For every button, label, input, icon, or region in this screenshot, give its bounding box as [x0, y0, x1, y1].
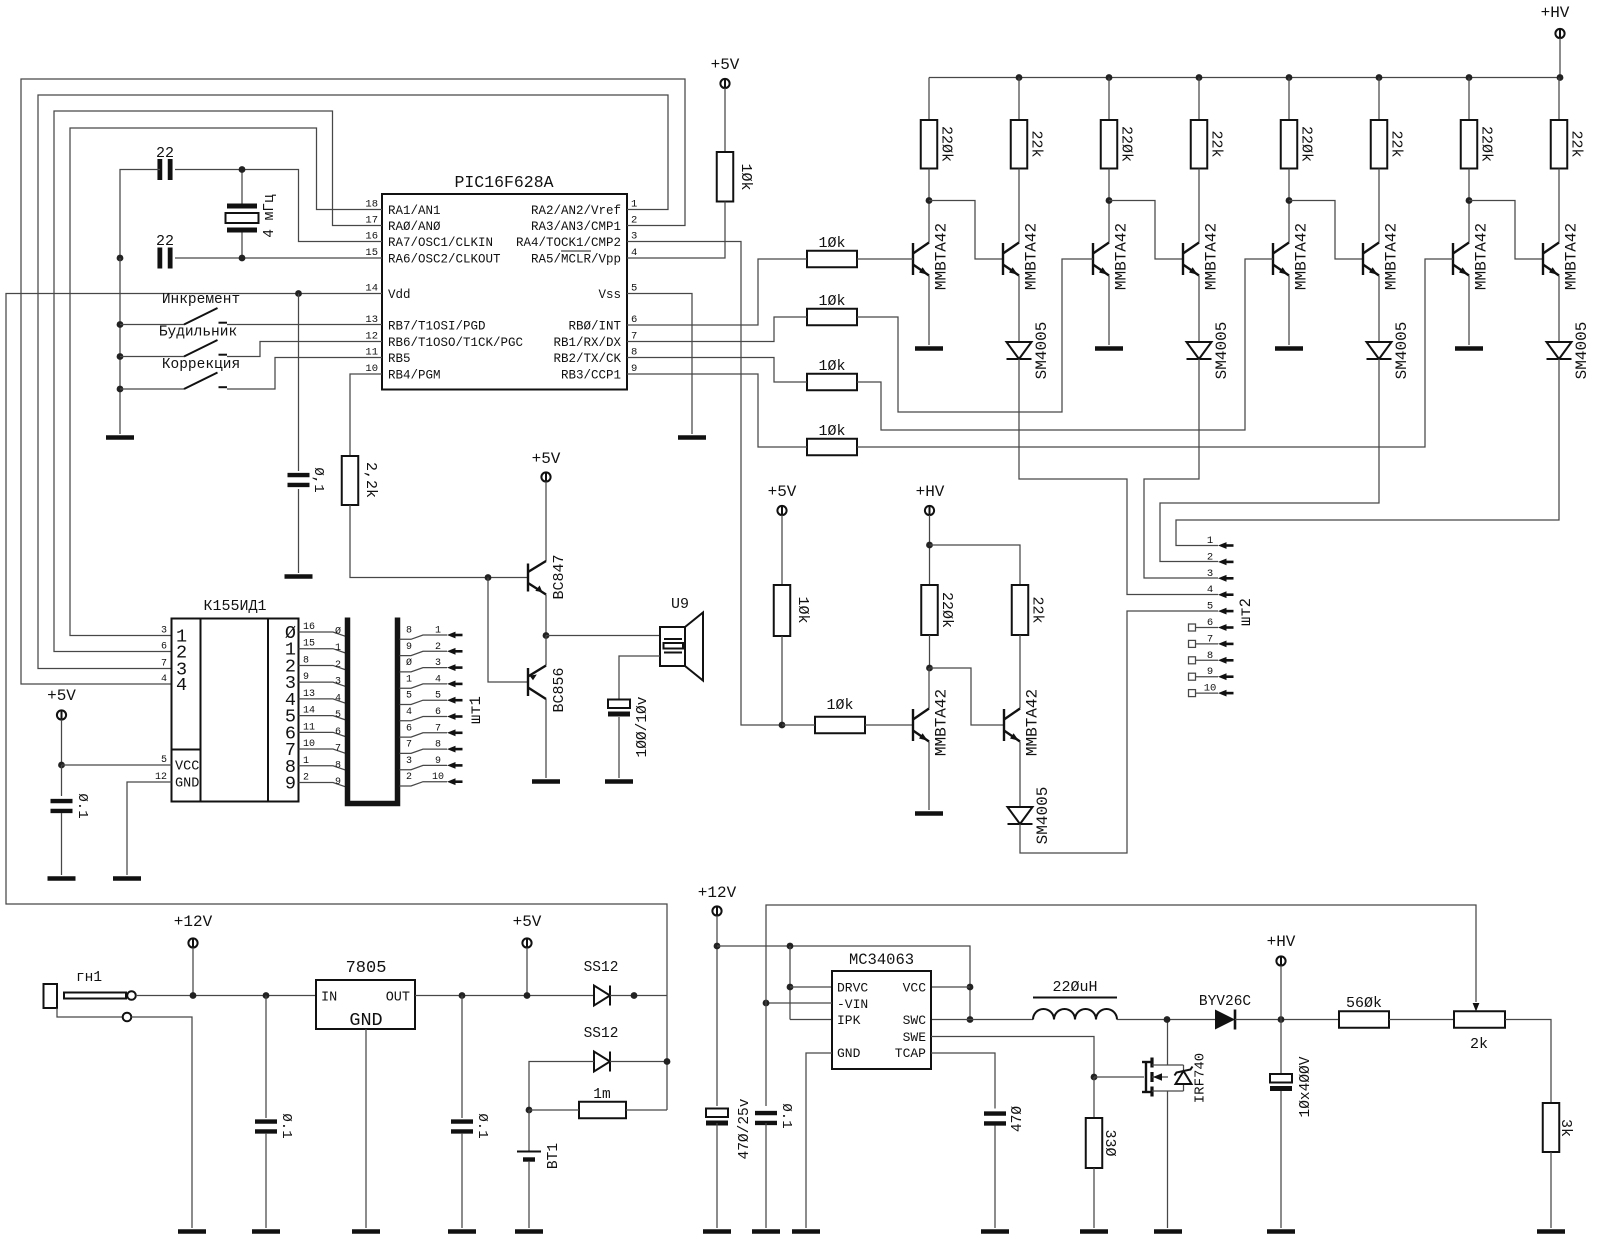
transistor MMBTA42 Q1 pair2 [1093, 243, 1109, 276]
ground mc34063 [792, 1229, 820, 1234]
ground mosfet source [1154, 1229, 1182, 1234]
svg-text:BT1: BT1 [546, 1143, 562, 1169]
capacitor 470 tcap [984, 1111, 1006, 1125]
wire 1m to rail [626, 1109, 667, 1111]
svg-text:11: 11 [365, 347, 378, 359]
svg-text:4: 4 [161, 674, 167, 685]
svg-text:2: 2 [631, 215, 637, 227]
svg-text:18: 18 [365, 199, 378, 211]
svg-text:9: 9 [303, 672, 309, 683]
svg-text:шт2: шт2 [1237, 598, 1255, 626]
svg-text:7805: 7805 [346, 959, 387, 978]
resistor 22k pair3 [1371, 120, 1388, 169]
IC U1 PIC16F628A body [382, 194, 627, 390]
svg-text:RB7/T1OSI/PGD: RB7/T1OSI/PGD [388, 320, 486, 334]
node cap1 tap [263, 992, 270, 999]
wire SB2 to pin12 [227, 342, 382, 357]
wire bus line B pin1-RA2 to K155 pin3 [38, 95, 668, 669]
wire bt to 1m [529, 1109, 579, 1111]
svg-text:SM4005: SM4005 [1034, 787, 1052, 845]
svg-text:9: 9 [285, 773, 296, 794]
svg-text:-VIN: -VIN [837, 997, 868, 1012]
svg-text:RAØ/ANØ: RAØ/ANØ [388, 220, 441, 234]
svg-text:RB3/CCP1: RB3/CCP1 [561, 369, 621, 383]
svg-text:9: 9 [406, 642, 412, 653]
svg-text:22Øk: 22Øk [1478, 126, 1495, 162]
svg-text:4: 4 [435, 674, 441, 685]
svg-text:1Øk: 1Øk [737, 163, 754, 190]
ground K155 cap [48, 876, 76, 881]
resistor 22k pair1 [1011, 120, 1028, 169]
svg-text:3: 3 [161, 626, 167, 637]
wire +12V terminal [192, 948, 194, 996]
svg-text:9: 9 [335, 777, 341, 788]
ground Q1 pair3 [1275, 346, 1303, 351]
resistor 10k MCLR [717, 152, 734, 202]
wire speaker bottom to cap [619, 656, 660, 700]
svg-text:15: 15 [303, 639, 315, 650]
ground cap fb [752, 1229, 780, 1234]
svg-text:22k: 22k [1029, 596, 1046, 623]
resistor 220k pair3 [1281, 120, 1298, 169]
capacitor 0.1 out [461, 996, 463, 1119]
transistor VT IRF740 mosfet [1142, 1062, 1151, 1092]
svg-text:5: 5 [435, 691, 441, 702]
wire SB1 to pin13 [227, 324, 382, 326]
svg-text:4: 4 [176, 675, 187, 696]
svg-text:RA2/AN2/Vref: RA2/AN2/Vref [531, 204, 621, 218]
wire rail to R220k col3 [1288, 78, 1290, 121]
svg-text:+5V: +5V [768, 483, 797, 501]
wire cap to ground [298, 489, 300, 573]
wire R220k to collector pair1 [928, 169, 930, 243]
wire diode5 to sht2 pin5 [1020, 611, 1218, 853]
IC U3 MC34063 [832, 971, 931, 1069]
wire BC856 collector to ground [545, 699, 547, 778]
svg-text:3: 3 [631, 231, 637, 243]
resistor 10k row4 [807, 439, 857, 456]
svg-text:2: 2 [435, 642, 441, 653]
wire pin10 RB4 to R2.2k [350, 374, 382, 456]
svg-text:2: 2 [1207, 551, 1213, 563]
node cap2 tap [459, 992, 466, 999]
svg-text:7: 7 [161, 659, 167, 670]
node button3 [117, 386, 124, 393]
svg-text:SM4005: SM4005 [1393, 322, 1411, 380]
wire R2.2k to BC847 base [350, 505, 528, 578]
wire rail to R22k col1 [1018, 78, 1020, 121]
svg-text:22k: 22k [1208, 130, 1225, 157]
svg-text:47Ø/25v: 47Ø/25v [737, 1098, 753, 1159]
svg-text:22: 22 [156, 145, 174, 162]
svg-text:8: 8 [631, 347, 637, 359]
node collector pair4 [1466, 197, 1473, 204]
resistor 220k pair2 [1101, 120, 1118, 169]
svg-text:RB6/T1OSO/T1CK/PGC: RB6/T1OSO/T1CK/PGC [388, 336, 523, 350]
wire SS12 backup anode [529, 1062, 594, 1111]
node button1 [117, 321, 124, 328]
wire SB3 to pin11 [227, 358, 382, 390]
svg-text:Ø.1: Ø.1 [778, 1103, 794, 1128]
wire inductor to diode [1117, 1019, 1215, 1021]
ground jack [178, 1229, 206, 1234]
svg-text:22k: 22k [1388, 130, 1405, 157]
wire vcc feed [717, 946, 970, 1020]
wire collector to Q2 base pair4 [1469, 201, 1543, 260]
svg-text:RBØ/INT: RBØ/INT [568, 320, 621, 334]
svg-text:1: 1 [406, 674, 412, 685]
wire gate to 330 [1093, 1077, 1095, 1118]
wire R220k to collector pair3 [1288, 169, 1290, 243]
wire pot out [1505, 1020, 1551, 1104]
transistor Q BC856 pnp [528, 666, 546, 700]
wire TCAP pin [931, 1053, 995, 1109]
capacitor 22 top [157, 159, 172, 180]
node backup rail [664, 1058, 671, 1065]
ground 7805 [352, 1229, 380, 1234]
svg-text:15: 15 [365, 247, 378, 259]
wire jack sleeve to ground [131, 1017, 192, 1228]
wires U2 outputs to sht1 bus [299, 632, 346, 636]
node collector pair3 [1286, 197, 1293, 204]
svg-text:3k: 3k [1557, 1119, 1574, 1137]
capacitor 0.1 fb [755, 1111, 777, 1125]
svg-text:2,2k: 2,2k [362, 462, 379, 498]
node +5V tap [524, 992, 531, 999]
node osc left junction [117, 255, 124, 262]
svg-text:SS12: SS12 [584, 1026, 619, 1042]
resistor 22k pair4 [1551, 120, 1568, 169]
svg-text:RB5: RB5 [388, 352, 411, 366]
svg-text:MMBTA42: MMBTA42 [1203, 223, 1221, 290]
svg-text:4: 4 [335, 693, 341, 704]
wire Q1 emitter pair3 [1288, 276, 1290, 346]
node HV split [926, 542, 933, 549]
node HV out [1278, 1016, 1285, 1023]
potentiometer 2k [1454, 1011, 1505, 1028]
svg-text:10: 10 [303, 739, 315, 750]
sht1 right wires and arrows [400, 635, 448, 639]
wire Vss pin5 [627, 294, 692, 435]
svg-text:22Øk: 22Øk [1118, 126, 1135, 162]
wire R row1 to Q1 base [857, 258, 913, 260]
ground battery [515, 1229, 543, 1234]
node button2 [117, 353, 124, 360]
svg-text:4: 4 [406, 707, 412, 718]
svg-text:MMBTA42: MMBTA42 [933, 223, 951, 290]
svg-text:5: 5 [406, 691, 412, 702]
svg-text:3: 3 [1207, 568, 1213, 580]
svg-text:2: 2 [335, 660, 341, 671]
wire SWC pin to inductor [931, 1019, 1033, 1021]
svg-text:22k: 22k [1568, 130, 1585, 157]
node collector mid [926, 665, 933, 672]
wire +12V to cap [716, 916, 718, 1107]
svg-text:1: 1 [435, 626, 441, 637]
svg-text:2: 2 [303, 772, 309, 783]
resistor 3k [1543, 1103, 1560, 1152]
wire HV to cap [1280, 1020, 1282, 1075]
ground Q1 pair4 [1455, 346, 1483, 351]
svg-text:MMBTA42: MMBTA42 [1563, 223, 1581, 290]
svg-text:OUT: OUT [386, 991, 410, 1006]
wire VCC pin [931, 986, 970, 988]
capacitor 0.1 in [265, 996, 267, 1119]
svg-text:6: 6 [161, 642, 167, 653]
svg-text:14: 14 [303, 706, 315, 717]
svg-text:1: 1 [631, 199, 637, 211]
wire R row3 to pair3 base [857, 259, 1273, 430]
svg-text:4: 4 [631, 247, 637, 259]
wire R row4 to pair4 base [857, 259, 1453, 447]
wire cap drop [61, 765, 63, 796]
wire to BC856 base [488, 578, 528, 683]
svg-text:56Øk: 56Øk [1346, 995, 1382, 1012]
transistor MMBTA42 Q2 pair2 [1183, 243, 1199, 276]
svg-text:7: 7 [631, 331, 637, 343]
wire +12V rail to 7805 [136, 995, 316, 997]
wire diode2 to sht2 pin3 [1144, 359, 1218, 578]
ground hv cap [1267, 1229, 1295, 1234]
svg-text:+5V: +5V [711, 56, 740, 74]
resistor 22k mid [1012, 585, 1029, 635]
wire Q2 emitter mid [1019, 742, 1021, 808]
svg-text:SWC: SWC [903, 1013, 927, 1028]
wire +HV rail [929, 38, 1560, 78]
resistor 560k [1339, 1011, 1389, 1028]
node vcc pin [967, 984, 974, 991]
svg-text:2: 2 [406, 772, 412, 783]
svg-text:Коррекция: Коррекция [162, 357, 240, 373]
wire collector to Q2 base pair2 [1109, 201, 1183, 260]
wire IPK pin [790, 1019, 832, 1021]
wire Q2 emitter pair4 [1558, 276, 1560, 343]
svg-text:Ø.1: Ø.1 [74, 793, 90, 818]
wire pin6 to R row1 [627, 259, 807, 325]
svg-text:6: 6 [435, 707, 441, 718]
wire Q1 emitter pair2 [1108, 276, 1110, 346]
wire diode4 to sht2 pin1 [1176, 359, 1559, 546]
svg-text:Ø,1: Ø,1 [310, 467, 326, 492]
wire Q1 emitter pair1 [928, 276, 930, 346]
svg-text:1m: 1m [593, 1087, 610, 1103]
svg-text:7: 7 [406, 740, 412, 751]
wire feedback line to pot [766, 905, 1476, 1106]
node swc [967, 1016, 974, 1023]
wire diode1 to sht2 pin4 [1019, 359, 1218, 595]
resistor 22k pair2 [1191, 120, 1208, 169]
svg-text:IPK: IPK [837, 1013, 861, 1028]
wire SS12 cathode [610, 995, 667, 997]
diode SM4005 pair4 [1547, 342, 1572, 359]
resistor 220k mid [921, 585, 938, 635]
svg-text:8: 8 [303, 655, 309, 666]
wire cap to ground [618, 717, 620, 778]
wire R to pin4 [627, 202, 725, 259]
ground Vdd cap [285, 574, 313, 579]
wire OSC1 pin16 net [175, 170, 382, 242]
resistor 1m [579, 1102, 626, 1119]
ground cap470 [703, 1229, 731, 1234]
svg-text:GND: GND [175, 777, 199, 792]
svg-text:1: 1 [303, 756, 309, 767]
svg-text:22Øk: 22Øk [938, 126, 955, 162]
svg-text:22ØuH: 22ØuH [1052, 979, 1097, 996]
svg-text:3: 3 [335, 677, 341, 688]
svg-text:VCC: VCC [903, 981, 927, 996]
svg-text:33Ø: 33Ø [1101, 1129, 1118, 1156]
wire OSC2 pin15 net [175, 257, 382, 259]
wire 560k to pot [1389, 1019, 1454, 1021]
wire Q2 emitter pair2 [1198, 276, 1200, 343]
svg-text:4 мГц: 4 мГц [262, 194, 278, 238]
wire rail to R220k col1 [928, 78, 930, 121]
diode SM4005 pair3 [1367, 342, 1392, 359]
svg-text:+HV: +HV [916, 483, 945, 501]
wire Vdd cap [298, 294, 300, 472]
resistor 10k row2 [807, 309, 857, 326]
svg-text:Ø: Ø [406, 657, 412, 669]
transistor MMBTA42 Q2 pair4 [1543, 243, 1559, 276]
svg-text:3: 3 [435, 658, 441, 669]
resistor 2,2k [342, 456, 359, 505]
svg-text:22Øk: 22Øk [1298, 126, 1315, 162]
transistor MMBTA42 Q1 pair3 [1273, 243, 1289, 276]
wire 330 to ground [1093, 1168, 1095, 1228]
svg-text:6: 6 [631, 314, 637, 326]
resistor 10k mid pullup [774, 585, 791, 636]
ground 330 [1080, 1229, 1108, 1234]
capacitor 0.1 K155 [51, 799, 73, 813]
svg-text:RA5/MCLR/Vpp: RA5/MCLR/Vpp [531, 253, 621, 267]
wire diode to HV node [1235, 1019, 1339, 1021]
wire collector to Q2 base pair1 [929, 201, 1003, 260]
wire +5V to R 10k [724, 88, 726, 152]
svg-text:SS12: SS12 [584, 960, 619, 976]
wire 22k to Q2 collector [1019, 635, 1021, 709]
svg-text:RB1/RX/DX: RB1/RX/DX [553, 336, 621, 350]
node drvc riser [787, 943, 794, 950]
capacitor 22 bottom [157, 248, 172, 269]
wire +5V terminal [526, 948, 528, 996]
transistor MMBTA42 Q1 pair4 [1453, 243, 1469, 276]
IC U2 K155ID1 body [172, 619, 299, 802]
svg-text:16: 16 [303, 622, 315, 633]
svg-text:22k: 22k [1028, 130, 1045, 157]
svg-text:DRVC: DRVC [837, 981, 868, 996]
svg-text:22Øk: 22Øk [938, 592, 955, 628]
svg-text:GND: GND [837, 1046, 861, 1061]
transistor MMBTA42 Q2 pair1 [1003, 243, 1019, 276]
diode SM4005 mid [1008, 807, 1033, 824]
svg-text:гн1: гн1 [76, 970, 102, 986]
wire rail to R220k col2 [1108, 78, 1110, 121]
wire 7805 gnd [365, 1029, 367, 1228]
svg-text:22: 22 [156, 233, 174, 250]
ground Vss [678, 435, 706, 440]
wire collector to Q2 base pair3 [1289, 201, 1363, 260]
node drvc [787, 984, 794, 991]
wire battery to ground [528, 1161, 530, 1228]
diode SM4005 pair1 [1007, 342, 1032, 359]
ground Q1 mid [915, 811, 943, 816]
wire R22k to Q2 collector pair1 [1018, 169, 1020, 243]
svg-text:+5V: +5V [513, 913, 542, 931]
resistor 10k row1 [807, 251, 857, 268]
ground 3k [1537, 1229, 1565, 1234]
svg-text:MMBTA42: MMBTA42 [1293, 223, 1311, 290]
svg-text:1Øx4ØØV: 1Øx4ØØV [1298, 1056, 1314, 1117]
svg-text:Ø.1: Ø.1 [474, 1113, 490, 1138]
node gate [1091, 1074, 1098, 1081]
wire HV to 22k [930, 545, 1021, 585]
ground Q1 pair1 [915, 346, 943, 351]
svg-text:1Øk: 1Øk [794, 596, 811, 623]
svg-text:10: 10 [432, 772, 444, 783]
svg-text:1Øk: 1Øk [818, 423, 845, 440]
wire Q2 emitter pair3 [1378, 276, 1380, 343]
connector sht1 bus bar [348, 618, 398, 804]
wire SWE to gate [931, 1037, 1094, 1078]
wire DRVC pin [790, 986, 832, 988]
wire 220k to collector node [929, 635, 931, 668]
wire bus line D pin18-RA1 to K155 pin1 [70, 128, 382, 636]
wire R220k to collector pair2 [1108, 169, 1110, 243]
svg-text:16: 16 [365, 231, 378, 243]
svg-text:+5V: +5V [47, 687, 76, 705]
svg-text:PIC16F628A: PIC16F628A [454, 173, 553, 192]
wire rail to R220k col4 [1468, 78, 1470, 121]
svg-text:1Øk: 1Øk [818, 293, 845, 310]
wire +5V to 10k [781, 515, 783, 585]
svg-text:GND: GND [349, 1010, 382, 1031]
svg-text:Ø.1: Ø.1 [278, 1113, 294, 1138]
svg-text:BC856: BC856 [551, 667, 568, 712]
svg-text:Ø: Ø [335, 626, 341, 638]
svg-text:4: 4 [1207, 584, 1213, 596]
svg-text:SWE: SWE [903, 1030, 927, 1045]
wire +HV terminal [1280, 966, 1282, 1020]
wire pin9 to R row4 [627, 374, 807, 447]
resistor 330 [1086, 1118, 1103, 1168]
capacitor 0,1 Vdd [288, 473, 310, 487]
transistor MMBTA42 Q2 mid [1004, 709, 1020, 742]
node crystal bottom [239, 255, 246, 262]
svg-text:RA4/TOCK1/CMP2: RA4/TOCK1/CMP2 [516, 236, 621, 250]
wire 3k to ground [1550, 1152, 1552, 1228]
svg-text:RB4/PGM: RB4/PGM [388, 369, 441, 383]
node collector pair1 [926, 197, 933, 204]
svg-text:RA6/OSC2/CLKOUT: RA6/OSC2/CLKOUT [388, 253, 501, 267]
svg-text:9: 9 [435, 756, 441, 767]
resistor 10k row3 [807, 374, 857, 391]
svg-text:IN: IN [321, 991, 337, 1006]
svg-text:MMBTA42: MMBTA42 [1113, 223, 1131, 290]
svg-text:U9: U9 [671, 596, 689, 613]
svg-text:RB2/TX/CK: RB2/TX/CK [553, 352, 621, 366]
battery BT1 [528, 1110, 530, 1151]
wire rail to R22k col2 [1198, 78, 1200, 121]
capacitor 100/10v [608, 700, 630, 709]
wire node to speaker [546, 635, 660, 637]
node battery top [526, 1107, 533, 1114]
wire gate [1094, 1076, 1144, 1078]
node Vdd cap tap [295, 290, 302, 297]
wire to ground [61, 813, 63, 875]
node +12V tap [190, 992, 197, 999]
svg-text:MMBTA42: MMBTA42 [1023, 223, 1041, 290]
svg-text:8: 8 [406, 626, 412, 637]
